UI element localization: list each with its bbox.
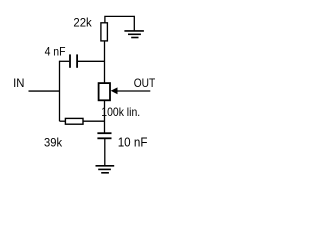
svg-text:39k: 39k <box>44 137 62 149</box>
svg-text:4 nF: 4 nF <box>45 46 66 59</box>
svg-text:OUT: OUT <box>134 77 156 90</box>
svg-text:IN: IN <box>13 78 24 90</box>
svg-text:100k lin.: 100k lin. <box>101 106 140 119</box>
svg-text:10 nF: 10 nF <box>118 135 148 150</box>
svg-text:22k: 22k <box>73 18 92 30</box>
